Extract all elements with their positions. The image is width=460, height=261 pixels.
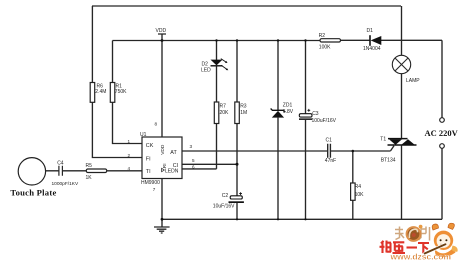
svg-text:8: 8 [155, 122, 158, 127]
svg-text:2: 2 [128, 153, 131, 158]
svg-text:R4: R4 [355, 184, 362, 190]
svg-text:R3: R3 [240, 103, 247, 109]
svg-text:100uF/16V: 100uF/16V [312, 118, 337, 124]
svg-text:LAMP: LAMP [406, 78, 420, 84]
svg-text:RI: RI [162, 163, 168, 168]
svg-text:BT134: BT134 [381, 158, 396, 164]
svg-text:www.dzsc.com: www.dzsc.com [390, 252, 452, 261]
svg-text:T1: T1 [380, 137, 386, 143]
svg-text:D1: D1 [367, 28, 374, 34]
svg-text:R5: R5 [86, 163, 93, 169]
svg-text:1N4004: 1N4004 [363, 46, 381, 52]
svg-text:C4: C4 [57, 160, 64, 166]
svg-text:VDD: VDD [160, 144, 166, 155]
svg-text:6.8V: 6.8V [283, 109, 294, 115]
svg-text:ZD1: ZD1 [283, 103, 293, 109]
svg-text:1M: 1M [240, 110, 247, 116]
svg-text:AC 220V: AC 220V [425, 128, 459, 138]
svg-text:LEDN: LEDN [165, 168, 179, 174]
svg-text:TI: TI [146, 169, 151, 175]
svg-text:750K: 750K [115, 89, 127, 95]
svg-text:7: 7 [153, 187, 156, 192]
svg-text:4: 4 [128, 166, 131, 171]
svg-text:AT: AT [170, 150, 177, 156]
svg-text:10K: 10K [355, 192, 365, 198]
svg-text:3: 3 [190, 144, 193, 149]
svg-text:VDD: VDD [156, 28, 167, 34]
svg-text:CK: CK [146, 143, 154, 149]
svg-text:100K: 100K [319, 45, 331, 51]
svg-text:C1: C1 [326, 137, 333, 143]
svg-text:R7: R7 [220, 103, 227, 109]
svg-text:47nF: 47nF [325, 158, 336, 164]
svg-text:6: 6 [192, 165, 195, 170]
svg-text:HM9900: HM9900 [141, 180, 160, 186]
svg-text:1K: 1K [86, 175, 93, 181]
svg-text:1000pF/1KV: 1000pF/1KV [52, 181, 79, 187]
svg-text:C3: C3 [312, 111, 319, 117]
svg-text:2.4M: 2.4M [95, 89, 106, 95]
svg-text:R2: R2 [319, 33, 326, 39]
svg-text:5: 5 [192, 158, 195, 163]
svg-text:LED: LED [201, 68, 211, 74]
svg-text:C2: C2 [222, 193, 229, 199]
svg-text:Touch Plate: Touch Plate [10, 188, 56, 198]
svg-text:D2: D2 [202, 61, 209, 67]
svg-text:U1: U1 [140, 132, 147, 138]
svg-text:FI: FI [146, 156, 151, 162]
svg-text:1: 1 [128, 139, 131, 144]
svg-text:20K: 20K [220, 110, 230, 116]
svg-text:10uF/16V: 10uF/16V [213, 204, 235, 210]
